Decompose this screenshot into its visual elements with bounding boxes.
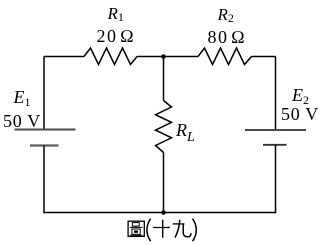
wire right lower [275, 145, 277, 213]
wire top-left segment [44, 56, 84, 58]
wire middle upper [163, 57, 165, 101]
wire top-middle segment [137, 56, 198, 58]
label 50 V right [281, 105, 319, 123]
wire middle lower [163, 153, 165, 213]
caption close paren [193, 219, 197, 242]
wire top-right segment [252, 56, 276, 58]
wire right upper [275, 57, 277, 131]
label R2 [218, 6, 234, 23]
caption glyph ten [153, 220, 170, 238]
caption glyph tu (figure) [128, 221, 144, 236]
battery E1 long plate [15, 129, 76, 131]
wire left upper [43, 57, 45, 130]
node B junction dot bottom [161, 210, 166, 215]
wire left lower [43, 146, 45, 214]
node A junction dot top [161, 54, 166, 59]
resistor R1 [84, 48, 137, 65]
battery E2 short plate [263, 144, 287, 146]
label RL [176, 121, 195, 139]
label E1 [14, 88, 31, 106]
resistor RL [156, 101, 172, 153]
label R1 [108, 5, 124, 22]
wire bottom [43, 212, 276, 214]
label 50 V left [3, 112, 41, 130]
label 80 ohm [208, 28, 247, 46]
battery E1 short plate [30, 144, 59, 146]
resistor R2 [198, 48, 252, 65]
label 20 ohm [97, 27, 136, 45]
caption open paren [147, 219, 151, 242]
caption glyph nine [173, 220, 191, 238]
battery E2 long plate [245, 129, 306, 131]
label E2 [292, 86, 309, 104]
